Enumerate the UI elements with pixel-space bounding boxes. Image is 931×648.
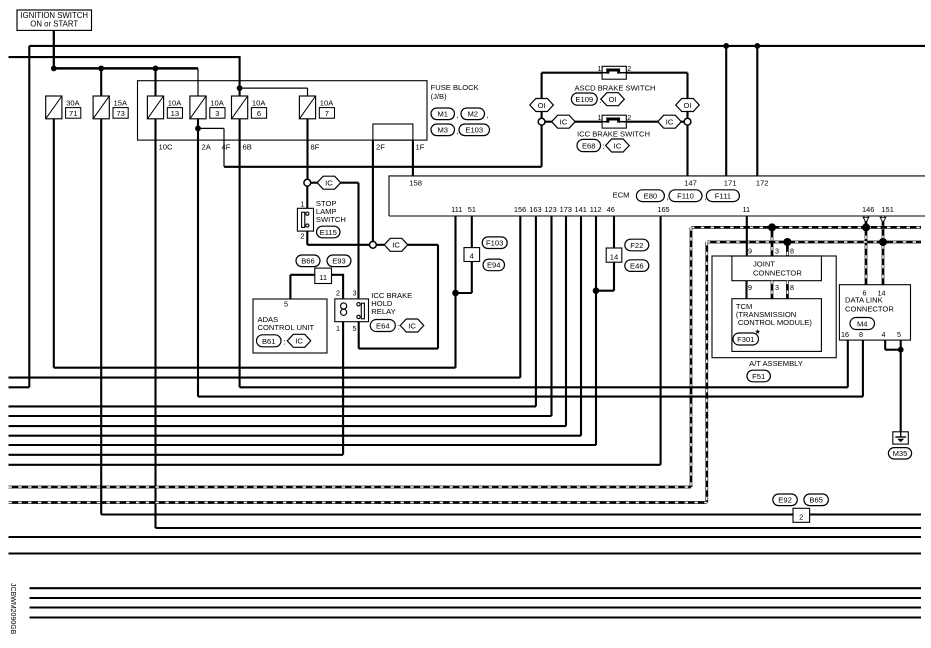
wire IC to relay pin 5 feed [407, 244, 438, 246]
wire drop to relay pin 2 [342, 275, 344, 299]
wire relay pin 5 row [359, 348, 438, 350]
wire DLC pin 4 to ground node [885, 349, 901, 351]
wire node to stop lamp switch pin 1 [306, 186, 308, 208]
wire second feed line [9, 56, 241, 58]
wire fuse 6 / pin 6B riser [239, 119, 241, 388]
svg-text:CONNECTOR: CONNECTOR [845, 305, 894, 314]
svg-text:165: 165 [657, 205, 669, 214]
wire IC to ICC switch pin 1 [575, 121, 602, 123]
svg-text:3: 3 [353, 288, 357, 297]
svg-text:112: 112 [590, 205, 602, 214]
connector E103 [459, 124, 490, 136]
fuse 10A 6 [232, 96, 248, 119]
connector E80 [636, 190, 664, 202]
svg-text:IC: IC [408, 321, 416, 330]
svg-text:1: 1 [336, 324, 340, 333]
wire ECM pin 51 down [471, 216, 473, 248]
harness connector box 11 [315, 268, 332, 283]
wire ECM pin 163 riser [535, 216, 537, 406]
wire to fuse 13 [154, 68, 156, 96]
svg-text:16: 16 [841, 330, 849, 339]
svg-text:10C: 10C [159, 143, 173, 152]
wire ECM pin 112 down [595, 216, 597, 445]
ICC brake hold relay E64 [335, 299, 369, 322]
svg-text:ASCD BRAKE SWITCH: ASCD BRAKE SWITCH [574, 83, 655, 92]
svg-text:1: 1 [598, 64, 602, 73]
connector E109 [571, 93, 597, 105]
wire ECM pin 11 to joint connector pin 9 [746, 216, 748, 256]
wire row 6B to DLC 16 [240, 386, 848, 388]
svg-text::: : [398, 322, 400, 331]
wire ECM pin 165 riser [660, 216, 662, 465]
wire to ASCD switch pin 1 [542, 72, 603, 74]
wire ignition switch to fuse feed [53, 30, 55, 68]
wire riser to ICC brake hold relay pin 3 [357, 183, 359, 299]
fuse 10A 7 [299, 96, 315, 119]
fuse block 2F/1F sub-box [373, 124, 413, 140]
svg-text:8: 8 [790, 283, 794, 292]
svg-text:,: , [667, 193, 669, 202]
svg-text:IC: IC [666, 118, 674, 127]
wire CAN-H bottom run to left edge [9, 486, 692, 489]
svg-text:CONTROL UNIT: CONTROL UNIT [258, 323, 315, 332]
wire battery bus to ECM pin 171 [725, 46, 727, 176]
page reference IC in ADAS box [287, 334, 311, 347]
junction fuse 3 output / 4F branch [195, 125, 201, 131]
wire row to ECM 163 [9, 405, 536, 407]
connector F110 [669, 190, 702, 202]
connector F51 [747, 370, 771, 382]
svg-text:6: 6 [257, 109, 261, 118]
svg-text:171: 171 [724, 179, 737, 188]
wire CAN-L left riser [705, 242, 708, 503]
wire CAN-H drop to joint connector pin 3 [771, 227, 774, 256]
wire row to ECM 123 [9, 415, 552, 417]
svg-text:IC: IC [614, 141, 622, 150]
svg-text:,: , [487, 111, 489, 120]
stop lamp switch symbol E115 [297, 208, 313, 231]
svg-text:ON or START: ON or START [30, 20, 78, 29]
wire to fuse 6 [239, 88, 241, 96]
svg-text:1: 1 [301, 199, 305, 208]
ECM box [389, 176, 925, 216]
connector E93 [327, 255, 351, 267]
wire fuse 71 output (10C side riser) [53, 119, 55, 368]
svg-text:E68: E68 [582, 142, 596, 151]
svg-text:E80: E80 [644, 192, 658, 201]
svg-text:E103: E103 [465, 126, 483, 135]
connector E94 [483, 259, 505, 271]
relay coil [341, 303, 347, 309]
wire battery bus to ECM pin 172 [756, 46, 758, 176]
svg-text:4: 4 [882, 330, 886, 339]
svg-text:8: 8 [790, 247, 794, 256]
wire ECM pin 123 riser [550, 216, 552, 416]
svg-text:F111: F111 [715, 192, 731, 201]
svg-text:30A: 30A [66, 99, 80, 108]
svg-text:3: 3 [775, 247, 779, 256]
CAN arrow pin 151 [880, 217, 886, 222]
wire pin 1F drop to ECM pin 158 [412, 140, 414, 176]
wire battery feed bus (top line) [29, 45, 925, 47]
wire stop lamp switch pin 2 down [306, 231, 308, 245]
wire right riser to ECM pin 147 [686, 73, 688, 176]
svg-text:(J/B): (J/B) [431, 92, 448, 101]
fuse 15A 73 [93, 96, 109, 119]
svg-text:5: 5 [897, 330, 901, 339]
wire relay pin 1 riser down [342, 322, 344, 455]
svg-text:M4: M4 [857, 320, 868, 329]
wire DLC pin 8 down to row [862, 340, 864, 397]
svg-text:3: 3 [215, 109, 219, 118]
junction CAN-H / joint connector [768, 223, 776, 231]
wire pin 46 join to 112 [596, 290, 614, 292]
page reference IC at stop lamp switch [317, 176, 341, 189]
wire pin 51 below box 4 [471, 262, 473, 294]
svg-text:11: 11 [319, 273, 327, 282]
wire 4F run to brake switches [224, 166, 542, 168]
svg-text:1F: 1F [416, 143, 425, 152]
svg-text:JCBWM2090GB: JCBWM2090GB [9, 583, 16, 635]
wire fuse 73 output riser [100, 119, 102, 515]
svg-text:ICC BRAKE SWITCH: ICC BRAKE SWITCH [577, 130, 650, 139]
wire drop to fuse 7 [307, 88, 309, 96]
connector F22 [625, 239, 649, 251]
junction pins 111/51 [452, 290, 459, 297]
svg-text:2: 2 [799, 512, 803, 521]
connector M4 [850, 318, 875, 330]
harness connector box 2 [793, 508, 810, 522]
svg-text:4F: 4F [222, 143, 231, 152]
svg-text:163: 163 [529, 205, 541, 214]
svg-text:2: 2 [627, 113, 631, 122]
junction pins 4/5 [898, 347, 904, 353]
svg-text:11: 11 [742, 205, 750, 214]
svg-text:A/T ASSEMBLY: A/T ASSEMBLY [749, 359, 803, 368]
wire fuse 13 / pin 10C riser [154, 119, 156, 528]
harness connector box 14 [606, 248, 622, 262]
ASCD brake switch symbol E109 [602, 66, 626, 79]
svg-text:E64: E64 [376, 322, 390, 331]
wire down leg to relay pin 5 row [437, 245, 439, 349]
svg-text:9: 9 [748, 247, 752, 256]
node stop lamp switch feed [304, 179, 311, 186]
svg-text:7: 7 [325, 109, 329, 118]
svg-text:E94: E94 [487, 261, 501, 270]
wire branch to fuse 7 [240, 87, 308, 89]
svg-text:B61: B61 [262, 337, 276, 346]
wire row to ECM 165 [9, 464, 661, 466]
svg-text:4: 4 [470, 252, 474, 261]
connector B61 [257, 335, 282, 347]
svg-text:51: 51 [468, 205, 476, 214]
ground symbol [893, 432, 909, 444]
connector B65 [804, 494, 829, 506]
wire left riser to battery bus [28, 46, 30, 387]
junction fuse 73 [98, 66, 104, 72]
svg-text:46: 46 [607, 205, 615, 214]
wire pin 51 join to 111 [456, 292, 472, 294]
svg-text:B66: B66 [301, 257, 315, 266]
connector F103 [482, 237, 507, 249]
junction pin 172 on battery bus [754, 43, 760, 49]
wire row full width lower [9, 552, 922, 554]
svg-text:14: 14 [610, 252, 618, 261]
svg-text:2A: 2A [202, 143, 212, 152]
ignition switch source box [17, 10, 92, 30]
svg-text:1: 1 [598, 113, 602, 122]
svg-text:5: 5 [353, 324, 357, 333]
wire ICC switch pin 2 out [626, 121, 658, 123]
wire row full width upper [9, 536, 922, 538]
svg-text:10A: 10A [168, 99, 182, 108]
wire CAN-L bus [707, 241, 921, 244]
page reference IC left [552, 115, 576, 128]
wire ECM pin 173 riser [565, 216, 567, 426]
svg-text:,: , [457, 111, 459, 120]
svg-text:B65: B65 [809, 496, 823, 505]
svg-text:158: 158 [409, 179, 422, 188]
wire row fuse 73 through connector 2 [101, 513, 921, 515]
wire pin 2F drop to stop lamp node [372, 140, 374, 241]
wire row to ECM 141 [9, 435, 582, 437]
svg-text:156: 156 [514, 205, 526, 214]
svg-text:★: ★ [755, 328, 761, 336]
junction CAN-L / pin 151 [879, 238, 887, 246]
svg-text:14: 14 [878, 288, 886, 297]
svg-text:,: , [457, 127, 459, 136]
wire ignition feed to fuses [54, 67, 198, 70]
svg-text:M35: M35 [893, 449, 908, 458]
page reference IC (ICC label) [606, 139, 630, 152]
connector E64 [370, 320, 395, 332]
wire ECM pin 111 down [454, 216, 456, 368]
data link connector box [839, 285, 910, 340]
CAN arrow pin 146 [863, 217, 869, 222]
wire CAN-L bottom run to left edge [9, 501, 707, 504]
connector M1 [431, 108, 455, 120]
ground connector M35 [888, 448, 911, 459]
svg-text:CONNECTOR: CONNECTOR [753, 269, 802, 278]
svg-text:73: 73 [116, 109, 124, 118]
connector M3 [431, 124, 455, 136]
svg-text:OI: OI [683, 101, 691, 110]
wire CAN-L ECM pin 151 to data link connector pin 14 [882, 216, 885, 285]
junction fuse 13 [153, 66, 159, 72]
fuse block (J/B) outline [138, 81, 428, 140]
svg-text:173: 173 [560, 205, 572, 214]
wire DLC pin 5 to ground [900, 340, 902, 432]
junction CAN-H / pin 146 [862, 223, 870, 231]
wire IC to relay pin 3 riser [340, 182, 359, 184]
wire up to relay pin 5 [358, 322, 360, 349]
svg-text:6: 6 [863, 288, 867, 297]
connector E68 [577, 139, 601, 151]
wire CAN-H ECM pin 146 to data link connector pin 6 [865, 216, 868, 285]
node stop lamp / 2F junction [370, 241, 377, 248]
wire row to ECM 173 [9, 425, 567, 427]
fuse 30A 71 [46, 96, 62, 119]
wire box 11 to relay pin 2 [332, 274, 345, 276]
joint connector box [732, 256, 822, 281]
svg-text:F22: F22 [630, 241, 643, 250]
page reference OI (ASCD label) [601, 93, 625, 106]
wire drop to ADAS control unit [289, 275, 291, 299]
wire joint connector pin 3 to TCM [771, 281, 774, 299]
junction pins 112/46 [593, 287, 600, 294]
svg-text:2F: 2F [376, 143, 385, 152]
node brake switch right junction [684, 118, 691, 125]
TCM box [732, 299, 822, 352]
svg-text:F301: F301 [737, 335, 754, 344]
wire row 2A to DLC 8 [198, 396, 863, 398]
connector E46 [625, 260, 649, 272]
svg-text:10A: 10A [210, 99, 224, 108]
wire to fuse 73 [100, 68, 102, 96]
wire branch to pin 4F [198, 127, 224, 129]
svg-text:F103: F103 [486, 239, 503, 248]
page reference IC at relay [400, 319, 424, 332]
svg-text:E109: E109 [575, 95, 593, 104]
ADAS control unit box [253, 299, 327, 353]
svg-text:10A: 10A [320, 99, 334, 108]
svg-text:123: 123 [544, 205, 556, 214]
svg-text:E115: E115 [320, 228, 337, 237]
connector F301 [733, 333, 759, 345]
connector E115 [317, 226, 341, 238]
wire ASCD switch pin 2 out [626, 72, 687, 74]
wire bottom bus row [30, 587, 922, 589]
svg-text:111: 111 [451, 205, 462, 214]
svg-text:141: 141 [575, 205, 587, 214]
wire CAN-L drop to joint connector pin 8 [786, 242, 789, 256]
junction pin 171 on battery bus [723, 43, 729, 49]
OI page reference left [530, 99, 554, 112]
wire bottom bus row [30, 606, 922, 608]
svg-text:JOINT: JOINT [753, 260, 775, 269]
wire fuse 3 / pin 2A riser [197, 119, 199, 397]
wire row to ECM 112/46 [9, 444, 597, 446]
wire drop to fuse 6 node [239, 57, 241, 88]
wire to IC hexagon left [545, 121, 554, 123]
svg-text:F110: F110 [677, 192, 694, 201]
svg-text:2: 2 [627, 64, 631, 73]
page reference IC at stop lamp node [384, 238, 408, 251]
svg-text:172: 172 [756, 179, 769, 188]
svg-text::: : [603, 142, 605, 151]
wire pin 2 to 2F node [307, 244, 369, 246]
svg-text:E93: E93 [332, 257, 346, 266]
connector M2 [461, 108, 485, 120]
wire ECM pin 141 riser [580, 216, 582, 436]
svg-text:3: 3 [775, 283, 779, 292]
wire to right node [680, 121, 684, 123]
fuse 10A 13 [147, 96, 163, 119]
OI page reference right [676, 99, 700, 112]
svg-text:6B: 6B [243, 143, 252, 152]
junction ignition/fuse 71 [51, 66, 57, 72]
ICC brake switch symbol E68 [602, 115, 626, 128]
svg-text:CONTROL MODULE): CONTROL MODULE) [738, 318, 812, 327]
wire node to IC hexagon [311, 182, 320, 184]
svg-text:FUSE BLOCK: FUSE BLOCK [431, 83, 479, 92]
wire fuse 7 / pin 8F to stop lamp switch [306, 119, 308, 180]
connector E92 [773, 494, 798, 506]
wire row 10C to right [156, 527, 922, 529]
A/T assembly box [712, 256, 836, 358]
wire row fuse 71 to ECM 111/51 [54, 367, 456, 369]
node brake switch left junction [538, 118, 545, 125]
wire bottom bus row [30, 616, 922, 618]
svg-text:M1: M1 [437, 110, 448, 119]
wire joint connector pin 9 to TCM [745, 281, 747, 299]
svg-text:5: 5 [284, 300, 288, 309]
connector B66 [296, 255, 320, 267]
svg-text:RELAY: RELAY [371, 307, 395, 316]
svg-text:IC: IC [392, 241, 400, 250]
wire pin 4F drop [223, 128, 225, 166]
wire to fuse 3 [197, 68, 199, 96]
svg-text:71: 71 [69, 109, 77, 118]
svg-text:15A: 15A [114, 99, 128, 108]
svg-text:IC: IC [560, 118, 568, 127]
wire ECM pin 156 riser [519, 216, 521, 378]
svg-text::: : [283, 338, 285, 347]
svg-text:2: 2 [301, 231, 305, 240]
wire CAN-H left riser [690, 227, 693, 487]
wire node to IC hexagon [376, 244, 387, 246]
svg-text:M2: M2 [467, 110, 478, 119]
wire CAN-H bus [691, 226, 921, 229]
svg-text:151: 151 [882, 205, 894, 214]
svg-text:IC: IC [295, 337, 303, 346]
wire joint connector pin 8 to TCM [786, 281, 789, 299]
svg-text:8F: 8F [311, 143, 320, 152]
wire ECM pin 46 down [613, 216, 615, 248]
svg-text:2: 2 [336, 288, 340, 297]
svg-text:M3: M3 [437, 126, 448, 135]
wire left riser brake switches [541, 73, 543, 167]
relay contact [361, 303, 364, 319]
wire box 11 to ADAS pin 5 [290, 274, 314, 276]
svg-text:OI: OI [609, 95, 617, 104]
wire row to relay pin 1 [9, 454, 344, 456]
wire DLC pin 4 down [884, 340, 886, 350]
svg-text:13: 13 [171, 109, 179, 118]
wire stub from left edge to riser [9, 386, 30, 388]
svg-text:ECM: ECM [613, 191, 630, 200]
harness connector box 4 [464, 248, 480, 262]
wire DLC pin 16 down to row [847, 340, 849, 387]
page reference IC right [658, 115, 682, 128]
svg-text:E92: E92 [778, 496, 792, 505]
svg-text:8: 8 [859, 330, 863, 339]
svg-text:10A: 10A [252, 99, 266, 108]
wire pin 46 below box 14 [613, 262, 615, 291]
svg-text:OI: OI [538, 101, 546, 110]
connector F111 [706, 190, 739, 202]
svg-text:9: 9 [748, 283, 752, 292]
junction CAN-L / joint connector [783, 238, 791, 246]
svg-text:SWITCH: SWITCH [316, 215, 346, 224]
junction node fuses 6/7 [237, 85, 243, 91]
svg-text:IC: IC [325, 179, 333, 188]
fuse 10A 3 [190, 96, 206, 119]
wire row to ECM 156 [9, 377, 521, 379]
svg-text:147: 147 [684, 179, 697, 188]
svg-text:E46: E46 [630, 261, 644, 270]
svg-text:146: 146 [862, 205, 874, 214]
